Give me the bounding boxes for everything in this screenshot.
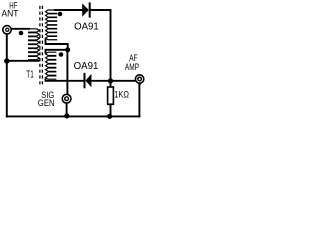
terminal HF ANT — [3, 26, 11, 34]
junction resistor to ground bus — [107, 114, 112, 119]
wire secondary upper bottom tap — [46, 40, 68, 50]
label 1K ohm — [114, 90, 129, 101]
transformer T1 secondary lower winding — [46, 52, 56, 79]
wire secondary lower top tap — [46, 50, 68, 53]
svg-text:GEN: GEN — [38, 98, 55, 108]
wire T1 primary bottom tap — [7, 60, 39, 62]
transformer T1 secondary upper winding — [46, 10, 57, 40]
terminal AF AMP — [135, 75, 143, 87]
wire D1 cathode to output node — [91, 10, 111, 81]
terminal SIG GEN — [62, 94, 71, 103]
label OA91 (D2) — [74, 60, 99, 72]
junction tap node — [65, 47, 70, 52]
svg-text:AMP: AMP — [125, 62, 139, 72]
junction SIG GEN to ground bus — [64, 113, 69, 118]
resistor R1 1K ohm — [108, 81, 114, 117]
wire AF AMP ground down — [138, 85, 140, 116]
diode D2 OA91 — [85, 74, 92, 87]
svg-text:ANT: ANT — [2, 8, 19, 18]
label HF ANT — [2, 1, 19, 19]
svg-text:T1: T1 — [26, 70, 34, 81]
wire secondary lower bottom to diode D2 — [46, 79, 84, 81]
label T1 — [26, 70, 34, 81]
node phase dot secondary lower — [59, 52, 64, 57]
junction T1 primary bottom to ground wire — [4, 58, 9, 63]
junction output node — [108, 78, 113, 83]
wire HF ANT to T1 primary top — [12, 28, 29, 30]
diode D1 OA91 — [82, 3, 90, 16]
transformer T1 core — [40, 6, 43, 85]
wire D2 anode to output node and AF AMP — [91, 80, 135, 82]
svg-text:OA91: OA91 — [74, 60, 99, 72]
wire HF ANT ground down — [6, 34, 8, 116]
wire secondary top to diode D1 — [55, 9, 82, 11]
wire tap node down to SIG GEN terminal — [66, 50, 68, 94]
label AF AMP — [125, 53, 139, 72]
label SIG GEN — [38, 90, 55, 108]
node phase dot T1 primary — [19, 31, 24, 36]
svg-text:OA91: OA91 — [74, 21, 99, 33]
wire ground bus — [7, 115, 140, 117]
wire SIG GEN terminal to ground bus — [66, 103, 68, 116]
svg-text:1KΩ: 1KΩ — [114, 90, 129, 101]
transformer T1 primary winding — [29, 29, 40, 60]
label OA91 (D1) — [74, 21, 99, 33]
node phase dot secondary upper — [58, 12, 63, 17]
